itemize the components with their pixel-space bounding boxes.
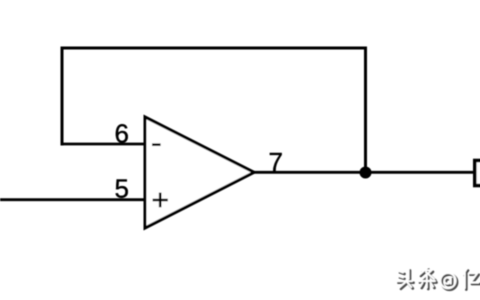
wire feedback left vertical: [61, 47, 64, 146]
wire feedback right vertical: [364, 47, 367, 173]
svg-text:6: 6: [115, 119, 129, 149]
junction dot (output node): [360, 167, 372, 179]
watermark 头条 @亿 (embossed): [397, 268, 480, 290]
output terminal box (clipped at right edge): [475, 161, 480, 186]
wire output pin 7: [252, 171, 476, 174]
op-amp U1 triangle: [145, 117, 254, 228]
wire input pin 5 (non-inverting input): [0, 198, 146, 201]
op-amp minus sign (inverting input marker): [152, 143, 161, 146]
op-amp plus sign (non-inverting input marker): [153, 193, 168, 208]
wire feedback top horizontal: [61, 47, 368, 50]
wire to pin 6 (inverting input): [61, 143, 147, 146]
svg-text:5: 5: [115, 174, 129, 204]
